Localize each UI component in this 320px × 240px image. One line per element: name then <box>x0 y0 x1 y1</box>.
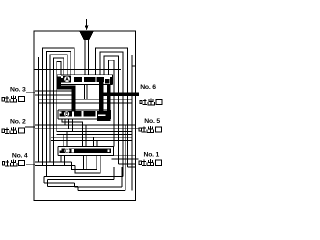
C bottom port step outer drop <box>60 156 62 162</box>
spool B letter badge <box>64 111 69 116</box>
right passage drop to bottom outer <box>124 125 126 190</box>
bore A bottom wall <box>57 84 113 86</box>
bottom channel left lower top wall <box>44 182 74 184</box>
thick path: spool A right drop to B <box>99 82 104 112</box>
passage arch left-2 <box>46 51 70 176</box>
passage arch right-4 <box>108 60 114 146</box>
C bottom port step inner drop <box>63 156 65 166</box>
bottom channel upper bottom wall <box>48 179 114 181</box>
right inner passage line <box>131 55 133 191</box>
outlet No.2/No.5 channel top wall <box>35 124 136 126</box>
bottom channel right lower top wall <box>74 186 122 188</box>
bore B bottom wall <box>58 118 111 120</box>
bore C bottom wall <box>58 155 114 157</box>
spool B label box <box>59 111 72 116</box>
A bottom port stub left <box>83 85 85 100</box>
spool B end notch <box>60 112 62 114</box>
No.5 leader line <box>136 128 139 130</box>
B-to-C passage step 3 <box>67 119 69 129</box>
spool A end cap <box>110 77 113 85</box>
svg-text:No. 4: No. 4 <box>12 153 28 160</box>
bore B top wall <box>58 109 111 111</box>
svg-text:No. 1: No. 1 <box>144 152 160 159</box>
bottom channel step outer <box>73 183 75 187</box>
inlet flow arrow head <box>85 26 89 31</box>
lower right passage bottom wall <box>127 166 135 168</box>
C top port stub 1 <box>63 135 65 147</box>
thick path: run under A leftward <box>57 85 75 89</box>
outlet No.1 channel top wall <box>112 155 136 157</box>
spool C slit 1 <box>72 149 75 153</box>
cross passage A-B top wall <box>39 98 132 100</box>
passage arch right-3 <box>104 56 118 164</box>
internal passage below No.2 bottom wall <box>57 134 132 136</box>
outlet No.4 channel top wall <box>35 161 72 163</box>
outlet No.1 channel bottom wall <box>112 158 136 160</box>
thick path: drop to spool B left <box>72 85 76 111</box>
spool A end notch <box>61 76 63 78</box>
spool B land 3 <box>84 111 96 116</box>
passage arch left-3 <box>50 55 67 162</box>
thick path: discharge line to No.6 <box>99 92 139 96</box>
inlet channel right wall <box>87 40 89 75</box>
inlet flow arrow shaft <box>86 19 88 26</box>
discharge-port label (tosyutsuguchi) for No.1 <box>139 159 161 166</box>
passage arch left-1 <box>42 48 74 165</box>
bore B right end wall <box>110 110 112 119</box>
No.4 leader line <box>26 163 35 165</box>
spool A land 1 <box>74 77 82 82</box>
passage arch right-2 <box>100 52 123 176</box>
spool A letter badge <box>64 76 70 82</box>
C bottom stub right <box>86 156 88 170</box>
bore A right end wall <box>112 75 114 85</box>
valve body outline <box>34 31 136 201</box>
passage B-C bottom wall <box>51 140 132 142</box>
spool A land 2 <box>84 77 95 82</box>
discharge-port label (tosyutsuguchi) for No.6 <box>140 98 162 105</box>
C inlet stub right <box>85 125 87 146</box>
passage B-C top wall <box>51 136 132 138</box>
thick path: spool A left end bar <box>57 77 61 90</box>
No.3 leader line <box>26 92 35 94</box>
bottom channel upper top wall <box>44 175 123 177</box>
B-to-C passage step 2 <box>64 119 66 125</box>
bore A top wall <box>57 74 113 76</box>
lower right passage top wall <box>118 163 135 165</box>
bottom channel left cap inner <box>47 180 49 187</box>
bottom passage U2 <box>75 156 100 173</box>
passage arch left-5 <box>57 62 61 132</box>
spool C bar <box>59 148 111 153</box>
discharge-port label (tosyutsuguchi) for No.5 <box>139 126 161 133</box>
B-to-C passage step 1 <box>62 119 83 146</box>
svg-text:No. 2: No. 2 <box>10 118 26 125</box>
thick path: second right drop to B chamber <box>107 85 111 112</box>
bore A left end wall <box>56 75 58 85</box>
bore C left end wall <box>57 146 59 155</box>
svg-text:No. 3: No. 3 <box>10 86 26 93</box>
outlet No.2/No.5 channel bottom wall <box>35 128 136 130</box>
outlet No.3 channel top wall <box>35 90 75 92</box>
bore B left end wall <box>57 110 59 119</box>
bottom channel step inner <box>77 186 79 190</box>
cross passage A-B bottom wall <box>39 102 132 104</box>
left side passage line <box>38 57 40 162</box>
svg-text:No. 5: No. 5 <box>144 118 160 125</box>
B-to-C passage step 4 <box>71 119 73 132</box>
discharge-port label (tosyutsuguchi) for No.2 <box>2 127 24 134</box>
right passage drop to bottom inner <box>121 167 123 187</box>
internal passage below No.2 top wall <box>57 131 132 133</box>
bottom arm up-leg right inner <box>113 167 115 180</box>
outlet No.3 channel bottom wall <box>35 94 75 96</box>
C top port stub 2 <box>66 132 68 147</box>
bottom channel left cap outer <box>43 176 45 183</box>
spool A land 4 offset <box>105 79 110 84</box>
spool C letter badge <box>64 148 69 153</box>
passage arch left-4 <box>54 58 64 165</box>
bore C top wall <box>58 145 114 147</box>
bottom channel right lower bottom wall <box>78 189 125 191</box>
passage arch right-1 <box>96 48 128 167</box>
spool B land 2 <box>74 111 81 116</box>
inlet channel left wall <box>84 40 86 75</box>
C top port stub 3 <box>93 137 95 146</box>
spool A label box <box>61 76 71 83</box>
spool B right chamber slit <box>98 114 106 116</box>
outlet No.4 channel bottom wall <box>35 164 75 166</box>
passage lid above bore A <box>35 68 121 70</box>
C bottom stub left <box>82 156 84 170</box>
spool A land 3 <box>97 77 104 82</box>
No.1 leader line <box>136 158 139 160</box>
bottom passage U1 <box>72 156 97 170</box>
right inner passage tick to border <box>132 65 136 67</box>
discharge-port label (tosyutsuguchi) for No.3 <box>2 96 24 103</box>
svg-text:No. 6: No. 6 <box>140 84 156 91</box>
spool B right chamber block <box>97 111 111 121</box>
spool C slit 2 <box>107 149 109 152</box>
A bottom port stub right <box>86 85 88 100</box>
inlet funnel port <box>79 31 93 40</box>
bore C right end wall <box>113 146 115 155</box>
spool C end notch <box>60 149 62 151</box>
C top port stub 4 <box>96 141 98 147</box>
bottom channel left lower bottom wall <box>48 185 78 187</box>
No.2 leader line <box>25 126 35 128</box>
discharge-port label (tosyutsuguchi) for No.4 <box>2 160 24 167</box>
